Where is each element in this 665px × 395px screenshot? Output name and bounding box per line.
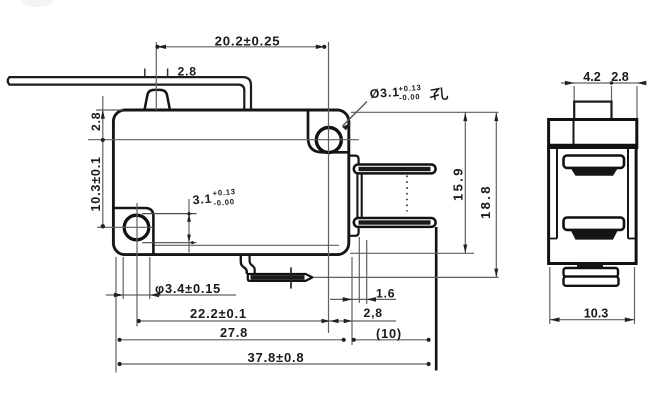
phi3.4 dim line bbox=[106, 294, 236, 296]
phi3.4 ext left bbox=[122, 257, 124, 299]
centerline hole BL horizontal bbox=[97, 226, 153, 228]
side terminal 2 bbox=[564, 218, 625, 230]
side bottom terminal bbox=[577, 263, 603, 268]
dim 10.3 bbox=[550, 267, 635, 324]
27.8 / (10) ends bbox=[118, 338, 122, 342]
dim 20.2 line bbox=[156, 46, 325, 48]
left dim line bbox=[102, 96, 104, 227]
svg-text:-0.00: -0.00 bbox=[399, 92, 421, 102]
centerline hole TR horizontal bbox=[88, 139, 359, 141]
side ext lines bbox=[574, 86, 637, 118]
leader arrowhead bbox=[342, 123, 351, 130]
svg-text:10.3±0.1: 10.3±0.1 bbox=[89, 156, 103, 211]
20.2 ends bbox=[155, 45, 159, 49]
22.2 ends bbox=[137, 319, 141, 323]
side flange bbox=[549, 120, 637, 148]
phi3.4 arrows (outside) bbox=[114, 293, 124, 298]
terminal blade lower bbox=[354, 218, 436, 227]
ref line blade bottom right bbox=[313, 276, 499, 278]
svg-text:3.1: 3.1 bbox=[192, 192, 213, 208]
side dim line 4.2 / 2.8 bbox=[561, 82, 644, 84]
svg-text:Ø3.1: Ø3.1 bbox=[369, 85, 400, 101]
side terminal 1 bbox=[564, 156, 625, 168]
scan smudge top-left bbox=[21, 0, 53, 7]
arrows and dots bbox=[101, 45, 499, 367]
ext line hole TR center vertical bbox=[328, 42, 330, 333]
side button bbox=[574, 102, 611, 120]
bottom terminal crank bbox=[241, 256, 247, 274]
37.8 ends bbox=[118, 362, 122, 366]
svg-text:2.8: 2.8 bbox=[611, 70, 629, 84]
ext body right bottom bbox=[351, 257, 353, 345]
svg-text:-0.00: -0.00 bbox=[213, 197, 235, 208]
terminal blade upper bbox=[354, 165, 436, 174]
svg-text:18.8: 18.8 bbox=[478, 184, 493, 219]
dim 15.9 line bbox=[464, 112, 466, 253]
lever arm bbox=[8, 77, 251, 109]
ref line body bottom right bbox=[350, 252, 474, 254]
37.8 dim line bbox=[119, 363, 429, 365]
body outline bbox=[113, 110, 348, 255]
svg-text:φ3.4±0.15: φ3.4±0.15 bbox=[155, 281, 221, 296]
svg-text:15.9: 15.9 bbox=[451, 166, 466, 201]
svg-text:4.2: 4.2 bbox=[583, 70, 601, 84]
side body block bbox=[549, 148, 637, 264]
centerline hole BL vertical bbox=[136, 203, 138, 327]
1.6 dim line bbox=[330, 298, 396, 300]
ext body top left bbox=[96, 109, 123, 111]
27.8 dim line bbox=[119, 339, 344, 341]
svg-text:27.8: 27.8 bbox=[220, 325, 248, 340]
dim 3.1 vertical bbox=[188, 199, 190, 253]
terminal mount step lower bbox=[349, 227, 359, 236]
svg-text:(10): (10) bbox=[376, 326, 402, 341]
kong (hole) character bbox=[430, 88, 448, 101]
svg-text:2.8: 2.8 bbox=[89, 112, 103, 131]
svg-text:20.2±0.25: 20.2±0.25 bbox=[215, 33, 281, 48]
bottom terminal blade bbox=[247, 274, 312, 281]
button plunger bbox=[145, 90, 170, 109]
svg-text:2,8: 2,8 bbox=[364, 306, 383, 320]
ext blade mount 1 bbox=[358, 237, 360, 303]
text hole label Ø3.1 bbox=[369, 83, 422, 105]
15.9 arrows bbox=[463, 113, 467, 122]
phi3.4 ext right bbox=[149, 257, 151, 299]
svg-text:37.8±0.8: 37.8±0.8 bbox=[248, 350, 305, 365]
ref line top right bbox=[351, 111, 499, 113]
ext body left bottom bbox=[115, 257, 117, 373]
3.1 dim arrows bbox=[187, 214, 191, 222]
ext line button center bbox=[155, 42, 157, 110]
1.6 arrows (outside) bbox=[343, 297, 353, 302]
seam line inside body bbox=[155, 244, 340, 246]
svg-text:10.3: 10.3 bbox=[584, 307, 609, 321]
left dim arrow up bbox=[101, 110, 105, 119]
dotted centerline between blades bbox=[406, 176, 408, 212]
22.2 / 2.8 dim line bbox=[139, 320, 397, 322]
dim 18.8 line bbox=[495, 112, 497, 277]
18.8 arrows bbox=[494, 113, 498, 122]
text 3.1 +0.13 -0.00 bbox=[192, 187, 237, 210]
mounting hole bottom-left bbox=[124, 215, 149, 240]
tick across bottom blade bbox=[290, 267, 292, 288]
svg-text:2.8: 2.8 bbox=[178, 65, 197, 79]
ext blade mount 2 bbox=[366, 240, 368, 304]
terminal channel bbox=[356, 174, 358, 219]
tangent bottom hole BL bbox=[142, 242, 197, 244]
svg-text:22.2±0.1: 22.2±0.1 bbox=[190, 306, 247, 321]
extension line bottom blade tip (thick) bbox=[435, 227, 438, 371]
leader line hole label bbox=[343, 102, 368, 127]
svg-text:1.6: 1.6 bbox=[376, 287, 395, 301]
terminal mount step upper bbox=[349, 156, 359, 165]
mounting hole top-right bbox=[316, 128, 341, 153]
tangent top hole BL bbox=[142, 213, 197, 215]
boss contour top-right bbox=[308, 111, 349, 153]
dim ticks 2.8 top bbox=[144, 69, 146, 77]
(10) dim line bbox=[354, 339, 430, 341]
boss contour bottom-left bbox=[114, 208, 154, 254]
